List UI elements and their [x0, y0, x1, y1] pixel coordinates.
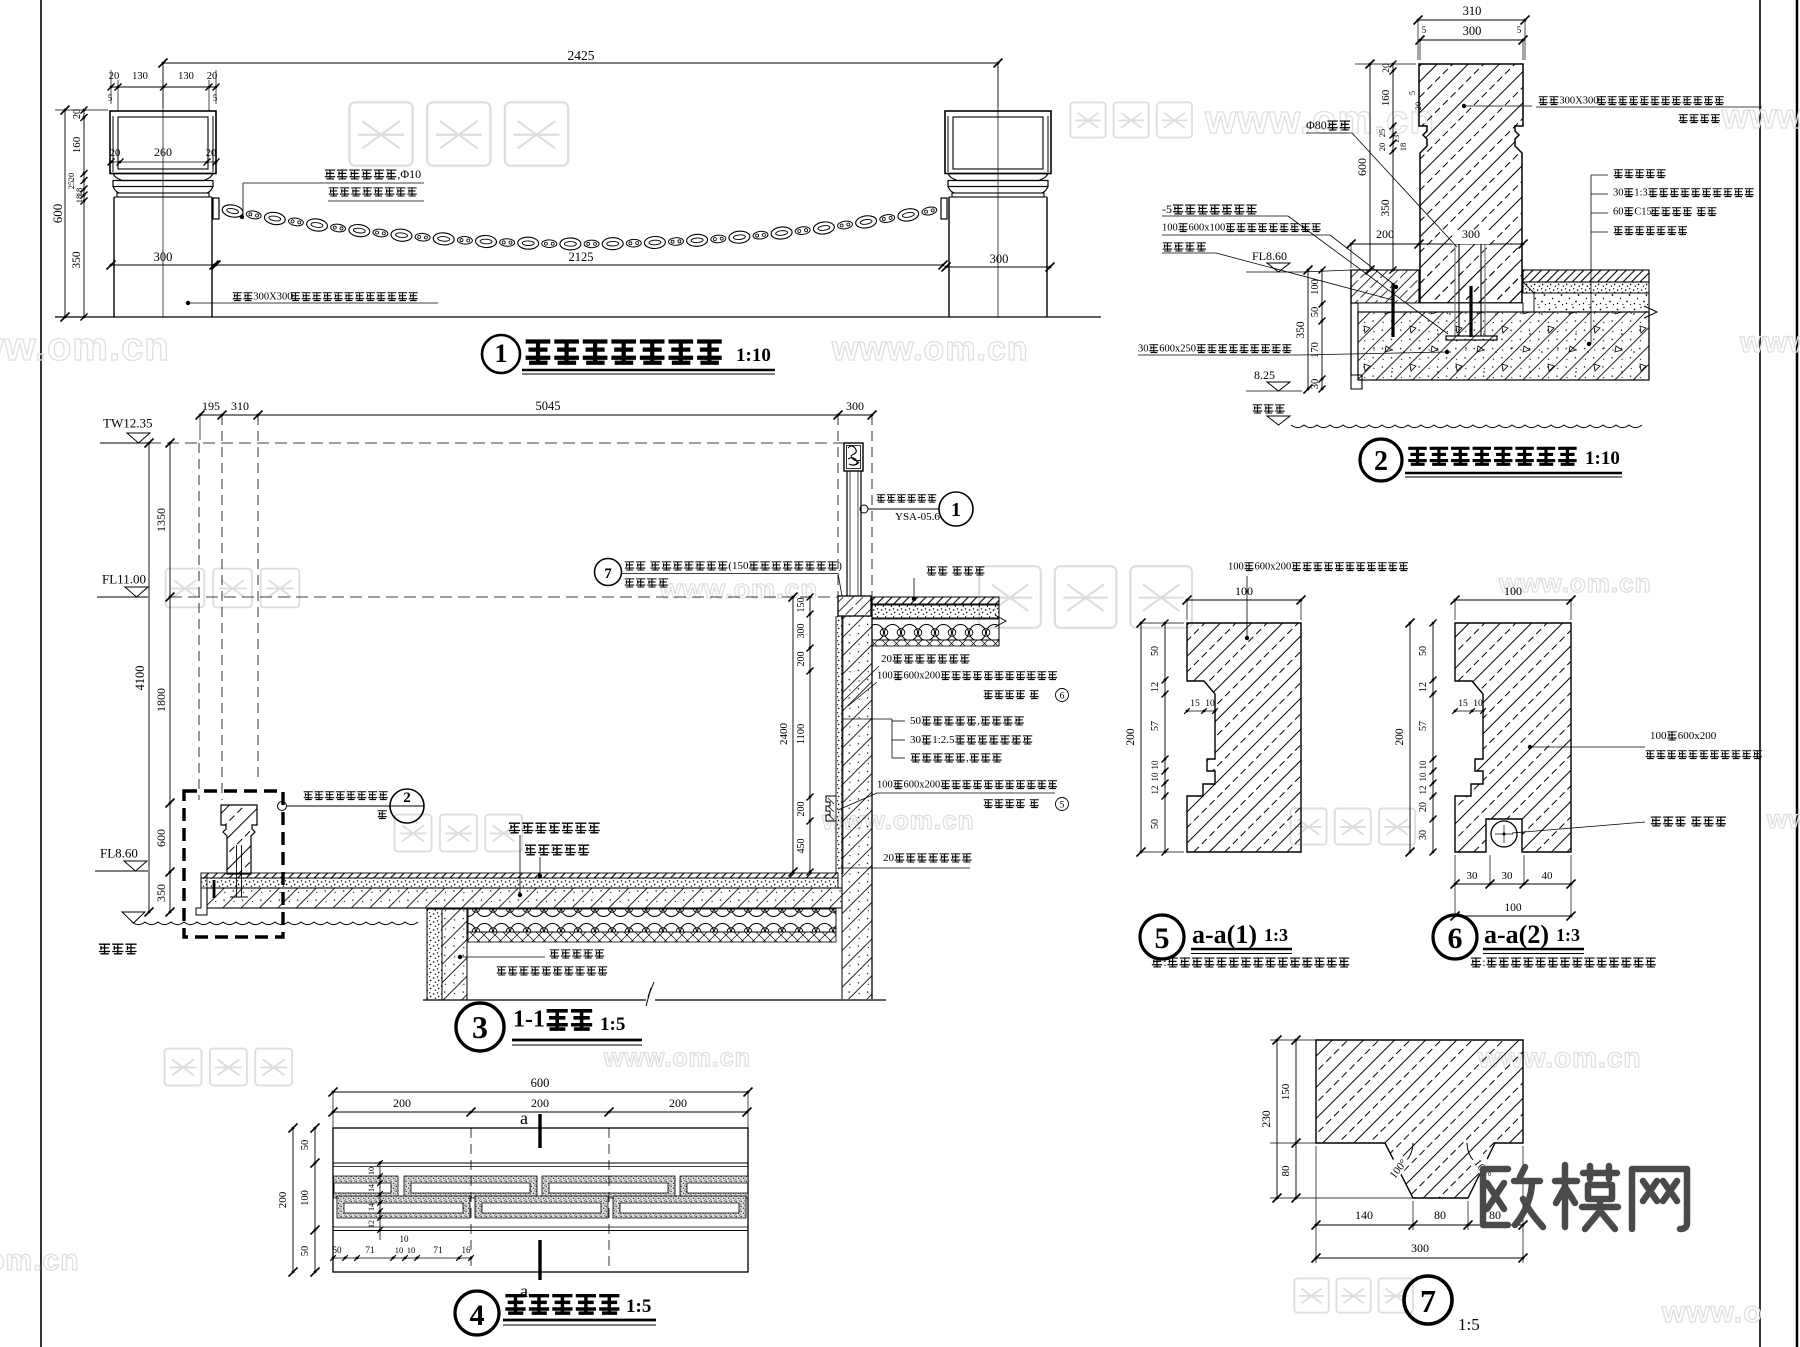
svg-text:50: 50 [1150, 646, 1161, 656]
svg-text:-5: -5 [1162, 202, 1172, 216]
svg-text:30: 30 [1138, 344, 1149, 355]
svg-text:a: a [520, 1108, 528, 1128]
svg-text:300: 300 [1411, 1241, 1429, 1255]
svg-text:600: 600 [531, 1076, 550, 1090]
svg-text:1:5: 1:5 [1458, 1315, 1480, 1334]
svg-text:YSA-05.6: YSA-05.6 [895, 511, 940, 523]
svg-text:10: 10 [367, 1167, 376, 1175]
svg-text:260: 260 [154, 145, 172, 159]
svg-text:15: 15 [1458, 699, 1468, 709]
svg-text:160: 160 [71, 136, 83, 153]
svg-text:50: 50 [300, 1246, 311, 1257]
svg-text:www.o: www.o [1739, 326, 1800, 359]
svg-text:10: 10 [395, 1245, 404, 1255]
svg-text:300: 300 [796, 624, 807, 639]
svg-text:5: 5 [108, 93, 113, 103]
svg-text:600x200: 600x200 [904, 671, 941, 682]
svg-text:www.o: www.o [1661, 1296, 1763, 1329]
svg-text:60: 60 [1613, 207, 1624, 218]
svg-text:100: 100 [1228, 562, 1244, 573]
svg-text:,Φ10: ,Φ10 [397, 167, 421, 181]
svg-text:2: 2 [403, 790, 411, 806]
svg-text:20: 20 [72, 109, 83, 119]
svg-text:600x200: 600x200 [1255, 562, 1292, 573]
svg-text:100: 100 [300, 1190, 311, 1206]
svg-text:30: 30 [1613, 188, 1624, 199]
svg-text:350: 350 [71, 251, 83, 269]
svg-text:200: 200 [1394, 728, 1406, 746]
svg-text:www.om.cn: www.om.cn [603, 1044, 751, 1072]
svg-text:230: 230 [1261, 1110, 1273, 1128]
svg-text:1: 1 [495, 339, 508, 368]
svg-text:Φ80: Φ80 [1306, 118, 1327, 132]
svg-text:200: 200 [796, 652, 807, 667]
svg-text:2400: 2400 [778, 723, 790, 746]
svg-text:50: 50 [1150, 819, 1161, 829]
svg-text:100: 100 [1310, 279, 1321, 295]
svg-text:350: 350 [154, 884, 168, 902]
svg-text:200: 200 [796, 802, 807, 817]
svg-text:300: 300 [1462, 227, 1480, 241]
svg-text:170: 170 [1310, 342, 1321, 358]
svg-text:600x250: 600x250 [1159, 344, 1196, 355]
svg-text:20: 20 [1377, 143, 1387, 152]
svg-text:71: 71 [365, 1246, 375, 1256]
svg-text:80: 80 [1489, 1208, 1501, 1222]
svg-text:600: 600 [1355, 158, 1369, 176]
svg-text:300: 300 [990, 252, 1009, 266]
svg-text:20: 20 [110, 148, 121, 159]
svg-text:2425: 2425 [568, 48, 595, 63]
svg-text:350: 350 [1380, 199, 1392, 217]
svg-text:200: 200 [393, 1096, 411, 1110]
svg-text:100: 100 [1162, 223, 1178, 234]
svg-text:10: 10 [1418, 760, 1428, 770]
svg-text:20: 20 [109, 71, 120, 82]
svg-text:10: 10 [407, 1245, 416, 1255]
svg-text:20: 20 [206, 148, 217, 159]
svg-text:30: 30 [910, 734, 922, 746]
svg-text:): ) [838, 560, 842, 572]
svg-text:3: 3 [472, 1009, 488, 1045]
svg-text:50: 50 [333, 1245, 343, 1255]
svg-text:1:3: 1:3 [1556, 925, 1580, 945]
svg-text:50: 50 [300, 1140, 311, 1151]
svg-text:20: 20 [1418, 802, 1429, 812]
svg-text:100: 100 [877, 780, 893, 791]
svg-text:310: 310 [231, 399, 249, 413]
svg-text:50: 50 [1310, 307, 1321, 318]
svg-text:1:5: 1:5 [626, 1296, 651, 1317]
svg-text:20: 20 [1382, 63, 1392, 73]
svg-text:10: 10 [1205, 699, 1215, 709]
svg-text:1800: 1800 [154, 688, 168, 712]
svg-text:130: 130 [178, 71, 194, 82]
svg-text:200: 200 [531, 1096, 549, 1110]
svg-text:350: 350 [1295, 321, 1307, 339]
svg-text:FL8.60: FL8.60 [100, 846, 138, 861]
svg-text:50: 50 [910, 715, 922, 727]
svg-text:25: 25 [1377, 129, 1387, 138]
svg-text:5045: 5045 [536, 399, 561, 413]
svg-text:www: www [1766, 804, 1800, 834]
svg-text:195: 195 [202, 399, 220, 413]
svg-text:4100: 4100 [133, 666, 147, 691]
svg-text:200: 200 [669, 1096, 687, 1110]
svg-text:57: 57 [1150, 721, 1161, 731]
svg-text:6: 6 [1060, 692, 1065, 702]
svg-text::: : [1163, 955, 1166, 969]
svg-text:300: 300 [154, 250, 173, 264]
svg-text:2125: 2125 [569, 250, 594, 264]
svg-text:1:3: 1:3 [1634, 188, 1647, 199]
svg-text:www.om.cn: www.om.cn [0, 1244, 80, 1277]
svg-text:30: 30 [1502, 870, 1514, 882]
svg-text:8.25: 8.25 [1254, 368, 1275, 382]
svg-text:6: 6 [1448, 922, 1463, 955]
svg-text:300: 300 [1463, 24, 1482, 38]
svg-text:20: 20 [66, 173, 76, 182]
svg-text:TW12.35: TW12.35 [103, 416, 152, 431]
svg-text:1100: 1100 [796, 724, 807, 745]
svg-text:16: 16 [462, 1245, 472, 1255]
svg-text:2: 2 [1374, 446, 1388, 477]
svg-text:12: 12 [367, 1220, 376, 1228]
svg-text:200: 200 [277, 1191, 289, 1208]
svg-text:4: 4 [470, 1299, 485, 1332]
svg-text:www.om.cn: www.om.cn [831, 330, 1029, 368]
svg-text:100: 100 [1650, 730, 1667, 742]
svg-text:1-1: 1-1 [513, 1007, 545, 1033]
svg-text:5: 5 [1422, 25, 1427, 35]
svg-text:200: 200 [1376, 227, 1394, 241]
svg-text:12: 12 [1150, 682, 1161, 692]
svg-text:50: 50 [1418, 646, 1429, 656]
svg-text:14: 14 [367, 1203, 376, 1211]
svg-text:150: 150 [1280, 1083, 1292, 1100]
svg-text:30: 30 [1467, 870, 1479, 882]
svg-text:300X300: 300X300 [1559, 96, 1598, 107]
svg-text:80: 80 [1434, 1208, 1446, 1222]
svg-text:a-a(1): a-a(1) [1192, 920, 1257, 949]
svg-text:20: 20 [883, 852, 895, 864]
svg-text:600: 600 [154, 829, 168, 847]
svg-text:10: 10 [1150, 772, 1160, 782]
svg-text:12: 12 [1150, 786, 1160, 795]
svg-text:5: 5 [1517, 25, 1522, 35]
svg-text:12: 12 [1418, 682, 1429, 692]
svg-text:160: 160 [1380, 89, 1392, 106]
svg-text:FL11.00: FL11.00 [102, 572, 146, 587]
svg-text:10: 10 [400, 1234, 410, 1244]
svg-text:5: 5 [1155, 922, 1170, 955]
svg-text:57: 57 [1418, 721, 1429, 731]
svg-text:130: 130 [132, 71, 148, 82]
svg-text:100: 100 [1504, 584, 1522, 598]
svg-text:1:2.5: 1:2.5 [932, 734, 955, 746]
svg-text:7: 7 [1420, 1283, 1436, 1319]
svg-text:100: 100 [877, 671, 893, 682]
svg-text:300: 300 [846, 399, 864, 413]
svg-text:30: 30 [1418, 830, 1429, 840]
svg-text:300X300: 300X300 [253, 292, 292, 303]
svg-text:5: 5 [213, 93, 218, 103]
svg-text:www.om.cn: www.om.cn [659, 574, 818, 604]
svg-text:310: 310 [1463, 4, 1482, 18]
svg-text:600x200: 600x200 [1678, 730, 1717, 742]
svg-text:13: 13 [1391, 135, 1401, 144]
svg-text:(150: (150 [728, 560, 749, 572]
svg-text:7: 7 [604, 566, 612, 582]
svg-text:18: 18 [74, 195, 84, 204]
svg-text:1350: 1350 [154, 508, 168, 532]
svg-text:20: 20 [1413, 102, 1423, 111]
svg-text:a-a(2): a-a(2) [1484, 920, 1549, 949]
svg-text:FL8.60: FL8.60 [1252, 249, 1287, 263]
svg-text:,: , [966, 752, 969, 764]
svg-text:15: 15 [1190, 699, 1200, 709]
svg-text:1:10: 1:10 [736, 345, 771, 366]
svg-text:www.o: www.o [1721, 98, 1800, 136]
svg-text:1:5: 1:5 [600, 1014, 625, 1035]
svg-text:100: 100 [1235, 584, 1253, 598]
svg-text:a: a [520, 1281, 528, 1301]
svg-text:140: 140 [1355, 1208, 1373, 1222]
svg-text::: : [1482, 955, 1485, 969]
svg-text:5: 5 [1407, 91, 1417, 95]
svg-text:600x100: 600x100 [1189, 223, 1226, 234]
svg-text:600: 600 [50, 204, 65, 224]
svg-text:1: 1 [951, 499, 961, 521]
svg-text:C15: C15 [1634, 207, 1652, 218]
svg-text:450: 450 [796, 839, 807, 854]
svg-text:www.om.cn: www.om.cn [0, 325, 170, 369]
svg-text:20: 20 [207, 71, 218, 82]
svg-text:600x200: 600x200 [904, 780, 941, 791]
svg-text:30: 30 [1310, 379, 1321, 390]
svg-text:80: 80 [1280, 1165, 1292, 1177]
svg-text:100: 100 [1504, 902, 1522, 914]
svg-text:1:10: 1:10 [1585, 448, 1620, 469]
svg-text:20: 20 [881, 653, 893, 665]
svg-text:10: 10 [1418, 772, 1428, 782]
svg-text:1:3: 1:3 [1264, 925, 1288, 945]
svg-text:5: 5 [1060, 801, 1065, 811]
svg-text:,: , [977, 715, 980, 727]
svg-text:14: 14 [367, 1184, 376, 1192]
svg-text:10: 10 [1473, 699, 1483, 709]
svg-text:200: 200 [1125, 728, 1137, 746]
svg-text:18: 18 [1398, 143, 1408, 152]
svg-text:71: 71 [433, 1246, 443, 1256]
svg-text:12: 12 [1418, 786, 1428, 795]
svg-text:40: 40 [1542, 870, 1554, 882]
svg-text:10: 10 [1150, 760, 1160, 770]
svg-text:150: 150 [796, 598, 807, 613]
